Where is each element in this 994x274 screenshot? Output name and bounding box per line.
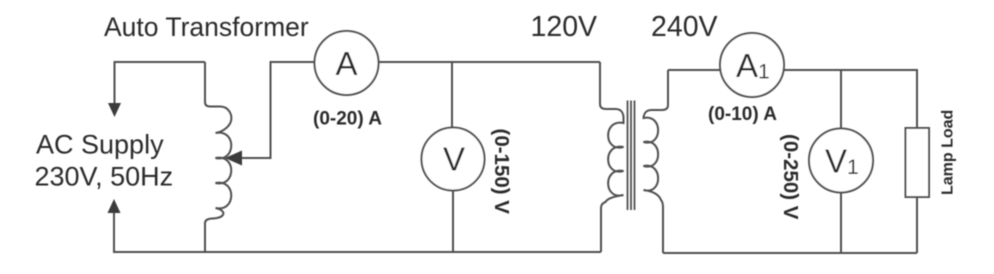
transformer core lines — [628, 101, 635, 211]
wire: secondary top rail to ammeter A1 — [668, 69, 721, 71]
svg-text:(0-20) A: (0-20) A — [313, 109, 382, 130]
AC supply up arrowhead — [108, 199, 121, 213]
svg-text:Auto Transformer: Auto Transformer — [104, 12, 309, 42]
transformer T1 secondary winding — [644, 70, 669, 253]
wire: voltmeter V top drop at junction — [451, 62, 453, 128]
transformer T1 primary winding — [600, 62, 624, 252]
svg-text:(0-10) A: (0-10) A — [708, 104, 777, 125]
autotransformer tap arrowhead — [225, 151, 242, 166]
wire: secondary top rail from A1 to lamp branch — [784, 70, 918, 128]
svg-text:(0-150) V: (0-150) V — [490, 129, 513, 215]
voltmeter V circle — [422, 128, 485, 191]
svg-text:240V: 240V — [651, 11, 718, 43]
wire: bottom-left horizontal (primary bottom rail) — [114, 213, 601, 252]
ammeter A1 circle — [720, 33, 784, 97]
svg-text:AC Supply: AC Supply — [36, 130, 164, 160]
svg-text:V: V — [443, 141, 465, 178]
wire: tap riser from autotransformer tap to top rail toward ammeter A — [239, 62, 315, 158]
AC supply down arrowhead — [108, 103, 121, 117]
svg-text:230V, 50Hz: 230V, 50Hz — [35, 162, 174, 192]
svg-text:Lamp Load: Lamp Load — [940, 110, 957, 195]
ammeter A circle — [315, 31, 379, 95]
svg-text:A: A — [336, 45, 358, 82]
autotransformer L1 coil — [205, 62, 231, 252]
wire: secondary bottom rail — [663, 252, 917, 254]
wire: voltmeter V1 top drop at junction — [840, 70, 842, 129]
wire: top-left horizontal from AC supply corner to autotransformer top — [115, 62, 206, 103]
wire: voltmeter V bottom drop — [452, 191, 454, 253]
lamp load rectangle — [906, 128, 930, 197]
wire: voltmeter V1 bottom drop — [840, 193, 842, 254]
voltmeter V1 circle — [809, 129, 873, 193]
wire: lamp bottom drop — [916, 197, 918, 253]
wire: top rail from ammeter A to transformer primary — [379, 61, 601, 63]
svg-text:(0-250) V: (0-250) V — [779, 134, 802, 220]
svg-text:120V: 120V — [531, 11, 598, 43]
